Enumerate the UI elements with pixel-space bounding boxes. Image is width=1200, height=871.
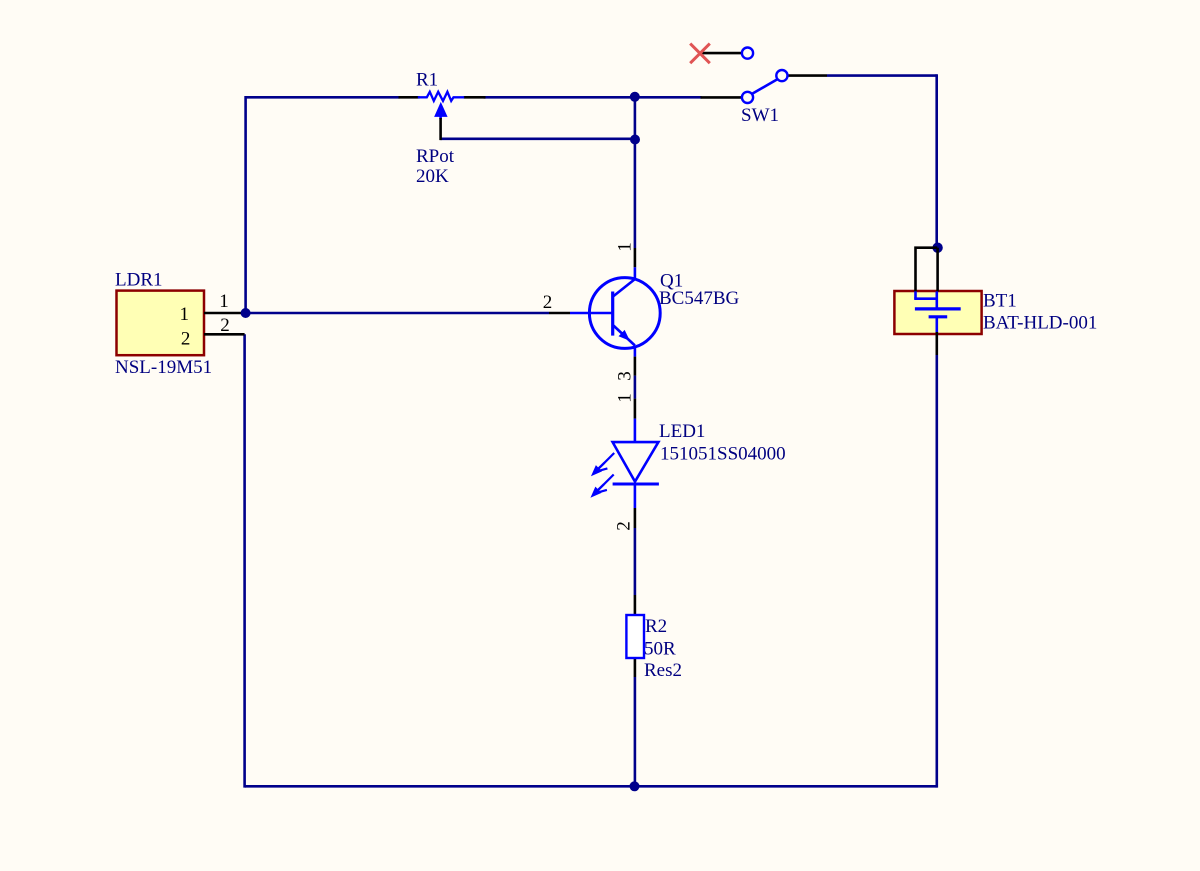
svg-text:20K: 20K [416, 166, 449, 187]
wire emitter to LED [634, 376, 637, 399]
svg-text:NSL-19M51: NSL-19M51 [115, 357, 212, 378]
switch SW1 common contact circle [742, 92, 753, 103]
transistor Q1 collector pin [634, 248, 637, 267]
transistor Q1 base pin blue part [570, 312, 613, 315]
wire top rail left segment [246, 96, 400, 99]
svg-text:2: 2 [543, 292, 553, 313]
svg-text:2: 2 [181, 329, 191, 350]
svg-text:BAT-HLD-001: BAT-HLD-001 [983, 313, 1097, 334]
switch SW1 unconnected contact circle [742, 48, 753, 59]
node junction dot top rail [630, 92, 640, 102]
LED1 arrow 1 chevron [595, 463, 607, 472]
resistor R1 wiper stem blue [439, 115, 442, 119]
svg-text:1: 1 [219, 291, 229, 312]
wire switch to right corner [827, 74, 937, 77]
resistor R2 pin 1 [634, 595, 637, 616]
LED1 pin 2 blue part [634, 484, 637, 508]
wire left vertical lower [243, 334, 246, 787]
battery BT1 body [894, 291, 981, 334]
svg-text:1: 1 [180, 304, 190, 325]
LED1 cathode bar [613, 483, 659, 486]
transistor Q1 base bar [611, 292, 614, 336]
battery BT1 negative lead blue [935, 317, 938, 334]
svg-text:Res2: Res2 [644, 660, 682, 681]
svg-text:BC547BG: BC547BG [659, 288, 740, 309]
resistor R1 left pin [399, 96, 420, 99]
resistor R1 right pin [464, 96, 486, 99]
svg-text:50R: 50R [644, 639, 676, 660]
node junction dot base net [241, 308, 251, 318]
svg-text:RPot: RPot [416, 146, 455, 167]
svg-text:SW1: SW1 [741, 105, 779, 126]
LED1 arrow 2 head [592, 488, 601, 497]
wire left vertical upper [244, 96, 247, 313]
battery BT1 pin 1 bent lead [916, 248, 938, 292]
LDR1 pin 1 [204, 312, 246, 315]
wire right vertical upper [935, 74, 938, 247]
battery BT1 positive plate [915, 307, 961, 310]
LED1 pin 1 [634, 399, 637, 419]
wire LED to R2 [634, 528, 637, 595]
switch SW1 lever [752, 79, 778, 94]
resistor R1 wiper pin [439, 118, 442, 140]
wire base net horizontal [246, 312, 549, 315]
LED1 arrow 2 chevron [595, 484, 607, 493]
transistor Q1 emitter pin [634, 357, 637, 376]
svg-text:R1: R1 [416, 70, 438, 91]
battery BT1 positive lead blue [935, 291, 938, 309]
svg-text:1: 1 [615, 242, 636, 252]
resistor R1 wiper arrow [435, 103, 447, 116]
wire R2 to bottom rail [634, 677, 637, 786]
transistor Q1 collector diagonal [613, 279, 635, 296]
LED1 triangle [613, 442, 659, 482]
transistor Q1 base pin [549, 312, 570, 315]
switch SW1 unconnected pin [700, 52, 742, 55]
LED1 pin 2 [634, 508, 637, 528]
battery BT1 pin 2 [935, 332, 938, 355]
resistor R2 pin 2 [634, 657, 637, 677]
transistor Q1 emitter arrowhead [619, 331, 629, 340]
switch SW1 common pin [701, 96, 742, 99]
LDR1 pin 2 [204, 333, 245, 336]
wire bottom rail [245, 785, 937, 788]
wire collector vertical [634, 97, 637, 248]
svg-text:LED1: LED1 [659, 421, 705, 442]
svg-text:R2: R2 [645, 616, 667, 637]
svg-text:151051SS04000: 151051SS04000 [660, 444, 786, 465]
svg-text:LDR1: LDR1 [115, 270, 163, 291]
transistor Q1 emitter diagonal [613, 326, 635, 346]
LED1 arrow 1 head [592, 466, 601, 475]
transistor Q1 collector pin blue part [634, 267, 637, 279]
wire top rail right of R1 [484, 96, 702, 99]
LED1 arrow 1 shaft [597, 453, 615, 471]
svg-text:BT1: BT1 [983, 291, 1017, 312]
node junction dot battery [932, 243, 942, 253]
resistor R2 body [626, 615, 644, 658]
LED1 arrow 2 shaft [596, 475, 614, 493]
transistor Q1 emitter pin blue part [634, 347, 637, 357]
no-connect marker red X [690, 44, 710, 64]
LED1 pin 1 blue part [634, 419, 637, 443]
switch SW1 throw contact circle [776, 70, 787, 81]
wire right vertical lower [935, 355, 938, 788]
battery BT1 clip blue horizontal [914, 297, 937, 300]
resistor R1 zigzag [418, 92, 464, 101]
svg-text:2: 2 [220, 315, 230, 336]
svg-text:3: 3 [615, 371, 636, 381]
battery BT1 clip blue vertical [914, 291, 917, 298]
svg-text:2: 2 [614, 521, 635, 531]
node junction dot bottom rail [630, 781, 640, 791]
battery BT1 negative plate [929, 315, 948, 318]
switch SW1 throw pin [788, 74, 827, 77]
LDR1 body [117, 291, 205, 356]
node junction dot wiper [630, 135, 640, 145]
wire wiper horizontal [440, 138, 635, 141]
transistor Q1 circle [589, 278, 660, 349]
battery BT1 pin 1 straight lead [936, 248, 939, 292]
svg-text:1: 1 [615, 393, 636, 403]
